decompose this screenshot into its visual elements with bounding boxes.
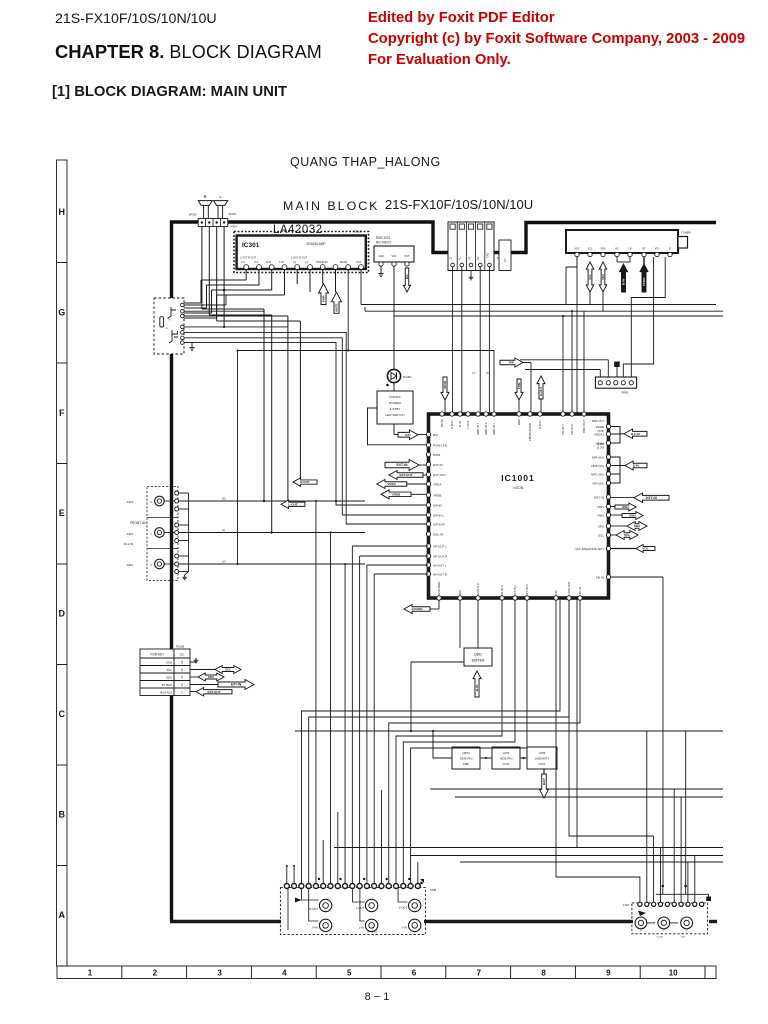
wires from P1001 down to IC1001 top pins — [452, 267, 454, 412]
wire bus to IC RMC pin — [583, 311, 585, 412]
svg-text:S: S — [150, 500, 152, 504]
svg-text:STAND-BY: STAND-BY — [316, 261, 329, 264]
signal arrow MUTE up — [335, 270, 337, 293]
svg-text:VRDA: VRDA — [388, 482, 397, 486]
svg-text:(C): (C) — [486, 371, 490, 375]
svg-text:GND: GND — [166, 661, 172, 665]
svg-text:ON/OFF: ON/OFF — [389, 395, 401, 399]
svg-text:SW1: SW1 — [622, 505, 629, 509]
svg-text:FRONT-AV: FRONT-AV — [130, 521, 147, 525]
ground under P1001 — [470, 271, 472, 276]
J407 top bus wire — [656, 894, 709, 899]
signal arrow SW2 — [622, 512, 643, 520]
svg-text:V: V — [150, 563, 152, 567]
svg-text:L-IN: L-IN — [279, 261, 284, 264]
svg-text:RMC: RMC — [517, 419, 521, 425]
wire FB-IN right — [611, 576, 663, 578]
svg-text:E: E — [59, 508, 65, 518]
signal arrow EXT-OUT — [389, 471, 423, 480]
svg-text:SDA: SDA — [166, 676, 172, 680]
bus wire horizontal — [365, 310, 723, 312]
svg-text:AMB-IN R: AMB-IN R — [484, 422, 488, 435]
signal arrow SCL left — [616, 531, 638, 540]
signal arrow EXT-IN right — [190, 684, 218, 686]
connector SP901 — [595, 377, 636, 388]
svg-text:VCC: VCC — [391, 255, 396, 258]
wire bundle from IC left pins to bottom — [352, 545, 428, 547]
svg-text:SIDE PIN: SIDE PIN — [500, 757, 513, 761]
svg-text:H-DY: H-DY — [542, 778, 546, 785]
wire headphone pin5 to IC SIF-IN R — [184, 332, 426, 524]
svg-text:POWER: POWER — [389, 401, 401, 405]
svg-text:SDA: SDA — [601, 274, 605, 280]
svg-text:B: B — [59, 809, 66, 819]
svg-text:Q801: Q801 — [474, 653, 482, 657]
ruler tick — [57, 563, 68, 565]
left ruler bar — [57, 160, 68, 966]
svg-text:V-OUT: V-OUT — [399, 906, 408, 910]
svg-text:C: C — [59, 709, 66, 719]
ruler tick — [186, 966, 188, 979]
IC1001 top pins — [440, 412, 444, 416]
ground from GND row — [190, 658, 196, 662]
svg-text:COIL: COIL — [538, 762, 545, 766]
svg-text:[1] BLOCK DIAGRAM: MAIN UNIT: [1] BLOCK DIAGRAM: MAIN UNIT — [52, 84, 287, 100]
svg-text:VDDP: VDDP — [596, 441, 604, 445]
IC1001 bottom pins — [437, 596, 441, 600]
main block border bottom middle segment — [424, 920, 633, 923]
ruler tick — [380, 966, 382, 979]
svg-text:PIF: PIF — [509, 361, 514, 365]
svg-text:8: 8 — [541, 969, 546, 978]
svg-text:GND: GND — [487, 252, 490, 258]
svg-text:(3.3V): (3.3V) — [597, 445, 604, 449]
svg-text:SCL: SCL — [167, 668, 173, 672]
svg-text:BUFFER: BUFFER — [472, 659, 485, 663]
svg-text:6: 6 — [412, 969, 417, 978]
svg-text:EXT-IN: EXT-IN — [433, 463, 443, 467]
svg-text:MUTE: MUTE — [335, 303, 339, 311]
signal arrow R/C to pin — [398, 430, 418, 440]
svg-text:VRDA: VRDA — [433, 482, 441, 486]
svg-text:Copyright (c) by Foxit Softwar: Copyright (c) by Foxit Software Company,… — [368, 31, 745, 47]
svg-text:BUS ADJ: BUS ADJ — [160, 691, 172, 695]
wires into SP901 from left — [520, 359, 608, 361]
svg-text:FOR ADJ: FOR ADJ — [150, 653, 164, 657]
svg-text:VOL ENHANCE SIFT: VOL ENHANCE SIFT — [575, 547, 604, 551]
ruler tick — [57, 664, 68, 666]
svg-text:R-IN: R-IN — [266, 261, 271, 264]
svg-text:5: 5 — [181, 661, 183, 665]
svg-text:RMC1001: RMC1001 — [376, 236, 391, 240]
signal arrow SDA vertical double — [599, 262, 607, 292]
speaker SP300 — [198, 201, 212, 206]
svg-text:A: A — [59, 910, 66, 920]
ground under RMC1001 — [380, 266, 382, 271]
svg-text:C-2: C-2 — [241, 261, 246, 264]
signal arrow SCL vertical double — [586, 262, 594, 292]
wire Q804 to L603 — [480, 757, 492, 759]
signal arrow VRDB — [381, 490, 411, 499]
front AV pins — [175, 491, 179, 495]
wire RMC1001 VCC down to D1001 — [393, 266, 395, 369]
svg-text:QUANG THAP_HALONG: QUANG THAP_HALONG — [290, 155, 441, 169]
svg-text:SW2: SW2 — [629, 514, 636, 518]
svg-text:Y/C-IN Y: Y/C-IN Y — [561, 424, 565, 435]
signal arrow MUTE down to IC — [441, 377, 449, 400]
svg-text:AMB-IN Y: AMB-IN Y — [476, 422, 480, 435]
svg-text:SP301: SP301 — [229, 212, 237, 216]
svg-text:AV-OUT R: AV-OUT R — [433, 572, 448, 576]
svg-text:10: 10 — [669, 969, 678, 978]
svg-text:FBL-IN: FBL-IN — [578, 587, 582, 596]
long vertical wires to J407 — [662, 886, 664, 894]
Q804 side pin amp block — [452, 747, 480, 769]
svg-text:SOL-IN: SOL-IN — [433, 532, 443, 536]
wire Q801 left loop — [411, 662, 464, 731]
bus wire bottom triple 3 — [460, 861, 723, 863]
svg-text:NPI (5V): NPI (5V) — [592, 481, 604, 485]
wire headphone pin3 to nest — [184, 315, 288, 317]
svg-text:GND: GND — [458, 590, 462, 596]
svg-text:2: 2 — [181, 683, 183, 687]
svg-text:EXT-OUT: EXT-OUT — [399, 473, 412, 477]
wire FB-IN vertical to J407 — [662, 577, 664, 886]
svg-text:SDA: SDA — [208, 675, 215, 679]
svg-text:R/C: R/C — [433, 433, 439, 437]
svg-text:MUTE: MUTE — [340, 261, 347, 264]
svg-text:V: V — [169, 318, 171, 322]
svg-text:R-OUT: R-OUT — [450, 420, 454, 429]
bus wire horizontal — [361, 304, 716, 306]
svg-text:VT33V: VT33V — [642, 277, 646, 286]
svg-text:VICON: VICON — [513, 486, 524, 490]
svg-text:LED SWITCH: LED SWITCH — [385, 413, 404, 417]
svg-text:LS: LS — [450, 257, 453, 260]
svg-text:GUARD: GUARD — [412, 607, 424, 611]
main block border left and top — [172, 222, 449, 922]
wire switch block to IC1001 R/C pin — [393, 424, 395, 435]
ruler tick — [57, 463, 68, 465]
signal arrow GUARD flag — [404, 605, 430, 614]
ruler tick — [57, 764, 68, 766]
svg-text:RMC OUT: RMC OUT — [582, 420, 586, 433]
IC1001 micom main IC — [429, 414, 609, 598]
svg-text:4: 4 — [282, 969, 287, 978]
svg-text:SP-OUT R: SP-OUT R — [433, 554, 448, 558]
svg-text:SP-OUT L: SP-OUT L — [433, 544, 447, 548]
svg-text:SOUND AMP: SOUND AMP — [306, 242, 325, 246]
signal arrow L-OUT flag — [281, 500, 305, 509]
signal arrow KEY-IN — [634, 493, 669, 503]
svg-text:FBC/BLK/AKB: FBC/BLK/AKB — [528, 423, 532, 441]
svg-text:SG: SG — [477, 256, 480, 260]
IC301 pins — [244, 265, 249, 270]
svg-text:LA42032: LA42032 — [273, 224, 323, 236]
svg-text:B-1.2V: B-1.2V — [631, 432, 640, 436]
signal arrow SDA right — [627, 522, 647, 531]
main block border top right segment — [494, 223, 716, 253]
svg-text:SP901: SP901 — [621, 392, 629, 395]
svg-text:(L): (L) — [222, 528, 225, 532]
signal arrow H-OUT up from IC — [537, 376, 545, 399]
svg-text:R3301: R3301 — [354, 231, 362, 234]
connector P1001 columns — [448, 222, 494, 271]
svg-text:SCL: SCL — [624, 533, 630, 537]
svg-text:4: 4 — [181, 668, 183, 672]
ruler tick — [250, 966, 252, 979]
svg-text:LINEARITY: LINEARITY — [535, 757, 550, 761]
svg-text:MAIN BLOCK: MAIN BLOCK — [283, 199, 379, 213]
bus wire horizontal lower2 — [455, 796, 723, 798]
wire L603 to L605 — [520, 757, 527, 759]
svg-text:SDA: SDA — [598, 524, 604, 528]
J408 RCA jacks — [319, 899, 331, 911]
svg-text:MUTE: MUTE — [440, 419, 444, 427]
svg-text:C-2: C-2 — [254, 261, 259, 264]
wire IC bottom pins down — [459, 600, 461, 648]
svg-text:L-OUT R-OUT: L-OUT R-OUT — [291, 257, 308, 260]
headphone jack symbols — [160, 317, 164, 327]
svg-text:CHAR-OUT: CHAR-OUT — [567, 581, 571, 596]
svg-text:VRDB: VRDB — [433, 493, 441, 497]
L605 linearity coil block — [527, 747, 557, 769]
L603 side pin coil block — [492, 747, 520, 769]
IC1001 right pins — [606, 424, 610, 428]
svg-text:EXT-OUT: EXT-OUT — [207, 690, 220, 694]
signal arrow EXT-IN — [385, 460, 419, 471]
signal arrow H-DY down under L605 — [543, 769, 545, 774]
svg-text:B-9V: B-9V — [475, 684, 479, 691]
svg-text:For Evaluation Only.: For Evaluation Only. — [368, 52, 511, 68]
svg-text:SCL: SCL — [225, 668, 231, 672]
J407 wires up — [646, 731, 648, 902]
signal arrow SW1 — [615, 503, 636, 511]
wire headphone pin7 to IC SIF-IN — [184, 343, 426, 505]
ruler tick — [704, 966, 706, 979]
svg-text:VOL: VOL — [642, 547, 648, 551]
svg-text:IC1001: IC1001 — [501, 473, 534, 483]
ground right of headphone block — [184, 342, 192, 344]
signal arrow VOL — [636, 545, 655, 553]
svg-text:SIF-IN L: SIF-IN L — [433, 513, 444, 517]
fuse column AC — [499, 240, 511, 271]
svg-text:SIF-IN R: SIF-IN R — [433, 522, 445, 526]
ruler tick — [315, 966, 317, 979]
svg-text:V-OUT: V-OUT — [657, 937, 664, 939]
svg-text:NPA (5V): NPA (5V) — [592, 455, 604, 459]
svg-text:L-OUT: L-OUT — [288, 502, 297, 506]
svg-text:9: 9 — [606, 969, 611, 978]
signal arrow VRDA — [377, 480, 407, 489]
J408 pins — [284, 884, 289, 889]
tuner IF wire to SP901 pin5 — [631, 257, 665, 377]
RCA jack J404 — [155, 496, 165, 506]
svg-text:3: 3 — [217, 969, 222, 978]
svg-text:KEY-IN: KEY-IN — [646, 496, 657, 500]
signal arrow B-9V under Q801 — [473, 671, 481, 697]
svg-text:B-9V: B-9V — [633, 464, 640, 468]
wire headphone pin4 right — [184, 326, 288, 328]
wire D1001 to switch block — [393, 383, 395, 391]
bus wire bottom triple 2 — [410, 855, 723, 857]
svg-text:AV-OUT L: AV-OUT L — [433, 563, 447, 567]
bracket NP pins — [611, 457, 620, 483]
nested wire routes above J408 — [301, 600, 560, 886]
svg-text:AGC: AGC — [574, 248, 579, 251]
wires from speaker connector down to AV nets — [201, 227, 203, 310]
svg-text:SW1: SW1 — [597, 505, 604, 509]
video wires from bus to IC top — [562, 316, 564, 412]
svg-text:J401: J401 — [623, 903, 630, 907]
svg-text:LA: LA — [468, 257, 471, 260]
svg-text:H: H — [59, 207, 66, 217]
svg-text:& STBY: & STBY — [389, 407, 400, 411]
tuner TU1001 block — [566, 230, 678, 253]
svg-text:R/C RECV.: R/C RECV. — [376, 241, 392, 245]
signal arrow VT33V up filled — [643, 257, 645, 264]
front AV jack block J404 J403 J402 — [147, 487, 178, 581]
svg-text:SIDE PIN: SIDE PIN — [460, 757, 473, 761]
svg-text:2: 2 — [153, 969, 158, 978]
svg-text:L-OUT: L-OUT — [466, 420, 470, 429]
wire into Q801 — [477, 600, 479, 648]
bus wire horizontal lower — [430, 788, 723, 790]
svg-text:J403: J403 — [126, 532, 133, 536]
svg-text:J404: J404 — [126, 500, 133, 504]
svg-text:Y/C-IN C: Y/C-IN C — [570, 424, 574, 435]
svg-text:POW: POW — [433, 453, 440, 457]
svg-text:J402: J402 — [126, 563, 133, 567]
svg-text:21S-FX10F/10S/10N/10U: 21S-FX10F/10S/10N/10U — [55, 11, 217, 27]
ruler tick — [574, 966, 576, 979]
tuner AGC wire down — [566, 257, 577, 305]
signal arrow SDA double — [190, 676, 198, 678]
svg-text:U: U — [686, 929, 688, 933]
svg-text:GND: GND — [378, 255, 384, 258]
svg-text:AV-1 IN: AV-1 IN — [367, 930, 376, 934]
svg-text:Y: Y — [640, 929, 642, 933]
svg-text:1: 1 — [88, 969, 93, 978]
svg-text:VDDE: VDDE — [596, 425, 604, 429]
svg-text:SCL: SCL — [588, 248, 593, 251]
svg-text:(Y): (Y) — [472, 371, 476, 375]
wire headphone branch down to AV — [237, 351, 239, 565]
svg-text:AMB-IN L: AMB-IN L — [492, 422, 496, 435]
ruler tick — [121, 966, 123, 979]
tuner VTU wire to SP901 pin4 — [623, 257, 653, 377]
svg-text:POW-LED: POW-LED — [433, 443, 448, 447]
svg-text:SIF-IN: SIF-IN — [433, 503, 442, 507]
svg-text:AV-OUT V: AV-OUT V — [476, 583, 480, 596]
diode D1001 photo detector — [387, 369, 400, 382]
svg-text:AV-2 IN: AV-2 IN — [124, 542, 133, 546]
svg-text:(+): (+) — [293, 261, 296, 264]
headphone jack J301 dashed box — [154, 298, 184, 354]
wire headphone pin1 up to nest — [184, 304, 226, 306]
svg-text:3: 3 — [181, 676, 183, 680]
svg-text:8 − 1: 8 − 1 — [365, 991, 390, 1003]
svg-text:V-IN: V-IN — [402, 926, 407, 930]
wire headphone pin6 to IC SIF-IN L — [184, 338, 426, 515]
bus wire horizontal third — [394, 315, 723, 317]
svg-text:EXT-OUT: EXT-OUT — [433, 473, 446, 477]
svg-text:D1001: D1001 — [403, 375, 412, 379]
J407 direction arrow — [638, 911, 646, 917]
RCA jack J402 — [155, 559, 165, 569]
signal arrow PWR down to IC — [515, 379, 523, 400]
svg-text:TUNER: TUNER — [681, 231, 691, 235]
connector J407 dashed box — [632, 903, 708, 934]
svg-text:EXT-IN: EXT-IN — [397, 463, 408, 467]
svg-text:LB: LB — [629, 248, 632, 251]
svg-text:V: V — [663, 929, 665, 933]
svg-text:F: F — [59, 408, 65, 418]
svg-text:AFT-IN R: AFT-IN R — [525, 584, 529, 596]
J408 internal wires — [301, 889, 318, 901]
svg-text:OUT: OUT — [404, 255, 410, 258]
signal arrow 5V — [625, 461, 647, 470]
signal arrow B-1.2V — [624, 429, 647, 439]
svg-text:(V): (V) — [222, 560, 226, 564]
RCA jack J403 — [155, 528, 165, 538]
ruler tick — [57, 865, 68, 867]
svg-text:PWR: PWR — [322, 295, 326, 302]
front AV signal wires right — [179, 500, 365, 502]
J407 RCA jacks — [635, 917, 647, 929]
IC301 outer toothed frame — [234, 232, 369, 273]
power and standby LED switch block — [377, 391, 413, 424]
svg-text:Q804: Q804 — [462, 751, 470, 755]
svg-text:(S): (S) — [222, 497, 226, 501]
svg-text:P300: P300 — [231, 225, 238, 229]
signal arrow B-9V up filled — [616, 257, 618, 262]
svg-text:L-OUT R-OUT: L-OUT R-OUT — [240, 257, 257, 260]
J407 pins — [638, 902, 642, 906]
svg-text:R/C: R/C — [405, 274, 409, 279]
speaker SP301 — [214, 201, 228, 206]
svg-text:V-IN: V-IN — [554, 591, 558, 596]
bus wire bottom triple 1 — [334, 847, 723, 849]
svg-text:VTU: VTU — [655, 248, 660, 251]
svg-text:P1008: P1008 — [176, 645, 185, 649]
svg-text:R-IN: R-IN — [312, 926, 318, 930]
wire to Q804 — [433, 731, 452, 758]
signal arrow R-OUT flag — [293, 478, 317, 487]
svg-text:CHAPTER 8.BLOCK DIAGRAM: CHAPTER 8.BLOCK DIAGRAM — [55, 41, 322, 62]
svg-text:VRDB: VRDB — [392, 492, 401, 496]
svg-text:H-OUT: H-OUT — [539, 387, 543, 396]
svg-text:SW2: SW2 — [597, 513, 604, 517]
svg-text:J408: J408 — [430, 888, 437, 892]
connector J408 dashed box — [280, 888, 425, 935]
wires from IC301 pins down — [296, 270, 298, 285]
bus wire horizontal mid — [295, 730, 723, 732]
svg-text:L605: L605 — [539, 751, 546, 755]
wire headphone pin2 to nest — [184, 310, 264, 312]
J408 left pin stubs — [286, 866, 288, 884]
svg-text:AFT-IN L: AFT-IN L — [513, 584, 517, 596]
svg-text:L: L — [220, 195, 222, 199]
svg-text:A: A — [166, 326, 168, 330]
svg-text:COIL: COIL — [502, 762, 509, 766]
svg-text:SP300: SP300 — [189, 213, 197, 217]
svg-text:NPB (5V): NPB (5V) — [591, 464, 604, 468]
svg-text:5: 5 — [347, 969, 352, 978]
IC301 sound amp block — [237, 236, 366, 270]
headphone pins — [181, 303, 185, 307]
svg-text:V-IN: V-IN — [681, 937, 686, 939]
